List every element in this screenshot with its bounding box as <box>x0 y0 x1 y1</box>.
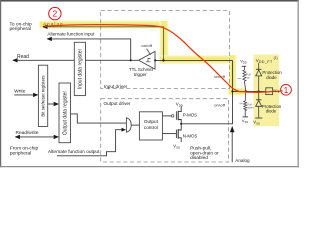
analog bottom arrow <box>231 132 233 162</box>
svg-text:disabled: disabled <box>190 155 208 161</box>
junction at schmitt input <box>154 59 156 61</box>
TTL schmitt trigger triangle <box>139 51 155 69</box>
output driver dashed box <box>101 99 229 162</box>
pull-down resistor <box>244 101 247 111</box>
analog path yellow highlight: step vertical <box>229 55 237 95</box>
output control box <box>139 112 162 140</box>
wire: vertical bus <box>232 60 234 124</box>
svg-text:trigger: trigger <box>134 72 147 77</box>
wire: schmitt base to node to step <box>155 59 233 61</box>
P-MOS transistor <box>175 111 177 120</box>
svg-text:Output driver: Output driver <box>104 101 132 106</box>
red circled 1 <box>281 85 292 96</box>
input driver dashed box <box>101 11 230 89</box>
svg-text:Output data register: Output data register <box>63 91 69 136</box>
register box: output data register <box>59 83 71 143</box>
wire: I/O pin wire <box>233 90 266 92</box>
svg-text:diode: diode <box>266 75 277 80</box>
mux to output control <box>131 124 139 126</box>
svg-text:up: up <box>247 76 250 79</box>
N-MOS transistor <box>175 130 177 139</box>
drain junction dot <box>180 123 182 125</box>
small yellow patch behind I/O pin label <box>279 88 283 95</box>
junction pull resistors <box>245 90 247 92</box>
analog path yellow highlight: top band <box>40 21 169 29</box>
red annotation curve <box>45 25 279 93</box>
register box: input data register <box>74 42 85 95</box>
svg-text:1: 1 <box>284 85 289 95</box>
junction bus / I/O wire <box>231 90 233 92</box>
svg-text:peripheral: peripheral <box>10 151 31 157</box>
svg-text:Alternate function output: Alternate function output <box>48 149 100 155</box>
analog highlight strip over protection diodes <box>254 55 280 127</box>
arrowhead analog left <box>42 25 47 29</box>
protection diode bottom <box>258 91 260 99</box>
svg-text:down: down <box>247 105 254 109</box>
svg-text:Read: Read <box>17 54 29 60</box>
pull-down column <box>244 91 247 101</box>
node analog junction <box>162 59 164 61</box>
svg-text:N-MOS: N-MOS <box>183 133 198 138</box>
analog path yellow highlight: I/O wire band <box>229 88 246 96</box>
wire: read/write double arrow <box>16 136 59 138</box>
wire: read arrow <box>13 59 74 61</box>
svg-text:Alternate function input: Alternate function input <box>47 31 95 36</box>
frame border <box>0 0 299 2</box>
ODR to mux wire <box>71 114 127 123</box>
svg-text:peripheral: peripheral <box>10 26 31 32</box>
I/O pin square <box>266 88 273 95</box>
svg-text:Input driver: Input driver <box>104 84 128 89</box>
hysteresis glyph <box>146 58 151 61</box>
svg-text:Bit set/reset registers: Bit set/reset registers <box>41 75 46 117</box>
P-MOS gate bubble <box>171 115 174 118</box>
wire: write arrow <box>14 94 37 96</box>
red circled 2 <box>49 7 61 19</box>
analog path yellow highlight: wire band <box>160 55 237 64</box>
svg-text:Analog: Analog <box>235 158 250 163</box>
pull-up switch lever <box>244 81 245 91</box>
wire: alternate function input line <box>48 39 131 61</box>
pull-up resistor <box>243 70 246 81</box>
svg-text:Input data register: Input data register <box>78 49 84 90</box>
wire: bsrr to odr arrow <box>48 103 58 105</box>
gate wire N <box>162 133 176 135</box>
gate wire P <box>162 115 171 117</box>
svg-text:P-MOS: P-MOS <box>183 112 197 117</box>
junction protection diodes <box>258 90 260 92</box>
analog path yellow highlight: vertical at node <box>160 21 169 64</box>
arrowhead alt function input left <box>47 37 52 41</box>
svg-text:2: 2 <box>53 9 58 19</box>
register box: bit set/reset registers <box>38 65 47 126</box>
svg-text:control: control <box>144 125 158 130</box>
svg-text:on/off: on/off <box>214 102 226 107</box>
junction AFI <box>130 59 132 61</box>
drain wire <box>181 123 232 125</box>
svg-text:Read/write: Read/write <box>16 130 39 136</box>
wire: IDR to schmitt <box>86 59 139 61</box>
svg-text:Output: Output <box>144 119 159 124</box>
mux symbol <box>126 118 131 132</box>
svg-text:Write: Write <box>14 89 25 95</box>
svg-text:on/off: on/off <box>141 43 153 48</box>
svg-text:diode: diode <box>266 109 277 114</box>
alternate function output wire <box>57 130 124 156</box>
wire: analog top line <box>43 27 163 61</box>
schmitt on/off switch lever <box>147 49 151 55</box>
protection diode top <box>256 68 261 70</box>
